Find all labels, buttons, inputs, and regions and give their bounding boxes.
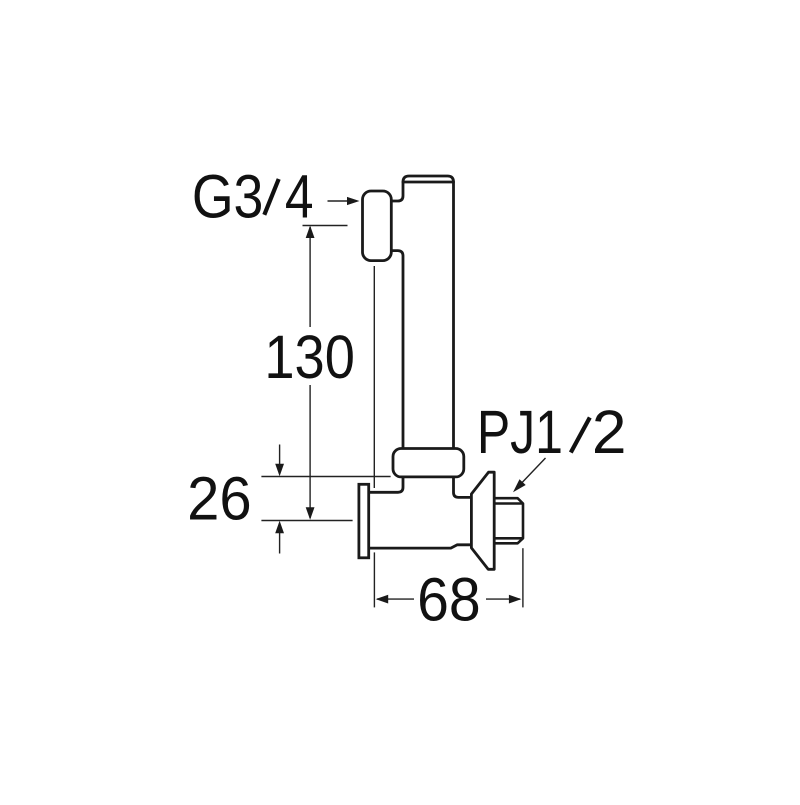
ext line nub center [303,225,348,227]
slash of G3/4 [264,179,278,215]
arrowheads [275,197,526,604]
thin dimension lines [261,201,545,607]
68 left arrow [376,595,389,604]
svg-text:68: 68 [417,566,481,634]
slash of PJ1/2 [571,418,590,453]
wall flange [359,484,369,558]
riser pipe left edge upper + cap [391,176,454,449]
ext below flange vertical [373,552,375,607]
svg-text:2: 2 [592,399,627,467]
ext nub bottom vertical [373,266,375,488]
G3/4 leader [328,200,348,202]
G3/4 arrow (right) [347,197,360,205]
svg-text:G3: G3 [192,163,264,231]
PJ1/2 arrow (down-left) [513,479,526,492]
68 dim line right [486,598,520,600]
130 top arrow (up) [306,226,315,239]
G3/4 nub outlet [363,191,392,261]
svg-text:PJ1: PJ1 [477,398,563,466]
svg-text:130: 130 [264,324,355,392]
riser pipe left edge lower [391,251,403,449]
ext line collar bottom [261,476,390,478]
body bottom edge [369,545,472,548]
26 bottom arrow (up) [275,521,284,534]
26 top arrow (down) [275,464,284,477]
ext right vertical [522,548,524,607]
svg-text:4: 4 [285,162,314,230]
pipe cap line [403,181,454,184]
cone [471,472,494,569]
pipe below collar right [454,477,472,498]
collar escutcheon [393,449,464,477]
ext line outlet center [261,520,352,522]
26 upper arrow shaft [279,445,281,475]
68 dim line left [377,598,414,600]
130 dim line lower [309,385,311,518]
svg-text:26: 26 [187,464,252,533]
68 right arrow [509,595,522,604]
26 lower arrow shaft [279,523,281,554]
130 bottom arrow (down) [306,507,315,520]
130 dim line upper [309,227,311,327]
PJ1/2 leader [522,458,546,483]
threaded nipple [494,498,523,543]
pipe below collar left [369,477,403,492]
